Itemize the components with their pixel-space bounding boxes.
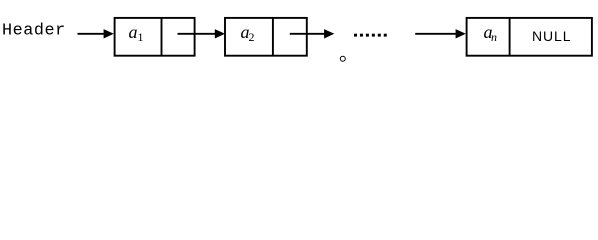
svg-text:1: 1 bbox=[138, 30, 144, 44]
svg-text:n: n bbox=[491, 30, 497, 44]
svg-text:NULL: NULL bbox=[532, 28, 571, 44]
node 2 divider bbox=[272, 18, 274, 56]
node 1 divider bbox=[161, 18, 163, 56]
node n box bbox=[467, 18, 592, 56]
node 1 data label a1 bbox=[129, 22, 144, 44]
node 1 box bbox=[115, 18, 195, 56]
small circle full stop mark bbox=[340, 56, 345, 61]
ellipsis dots bbox=[354, 34, 387, 37]
wire arrow node 1 to node 2 bbox=[178, 29, 226, 38]
node 2 data label a2 bbox=[241, 22, 255, 44]
node n divider bbox=[509, 18, 511, 56]
svg-text:Header: Header bbox=[2, 22, 66, 41]
wire arrow Header to node 1 bbox=[78, 29, 114, 38]
wire arrow ellipsis to node n bbox=[415, 29, 466, 38]
node n data label an bbox=[484, 22, 498, 44]
svg-text:a: a bbox=[129, 22, 138, 42]
svg-text:2: 2 bbox=[249, 30, 255, 44]
node 2 box bbox=[225, 18, 307, 56]
wire arrow node 2 to ellipsis bbox=[290, 29, 335, 38]
